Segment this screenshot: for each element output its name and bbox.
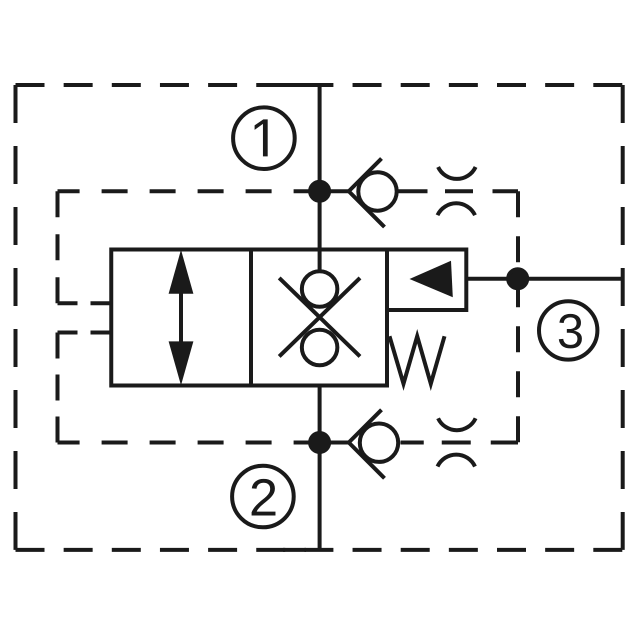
pilot actuator triangle — [410, 261, 453, 297]
junction node 1 — [310, 182, 329, 201]
spring W — [390, 336, 445, 384]
pilot stub upper solid — [94, 301, 111, 305]
junction node 3 — [508, 269, 527, 288]
left position arrowhead up — [169, 250, 194, 294]
check valve CV2 seat lines — [349, 410, 385, 478]
port 1 label — [255, 119, 268, 156]
port 2 circle — [232, 466, 294, 528]
pilot line upper elbow to valve — [58, 301, 95, 305]
left position arrowhead down — [169, 341, 194, 385]
wire node2 to check valve CV2 — [320, 441, 349, 445]
orifice O2 lower arc — [438, 455, 476, 467]
wire CV1 to orifice O1 — [399, 189, 428, 193]
outer boundary bottom edge dash patch — [283, 548, 306, 552]
wire node1 to check valve CV1 — [320, 189, 349, 193]
check valve CV2 ball — [360, 424, 398, 462]
port 2 label — [252, 479, 276, 516]
drain line vertical dashed — [516, 191, 520, 442]
pilot stub lower solid — [94, 331, 111, 335]
middle position stub into box — [318, 250, 322, 272]
port 3 label — [559, 314, 582, 348]
pilot line upper left vertical — [56, 191, 60, 303]
drain line upper horizontal dashed — [445, 189, 518, 193]
outer boundary top edge — [16, 83, 623, 87]
pilot line upper horizontal (node 1 to left) — [58, 189, 320, 193]
drain line lower horizontal dashed — [442, 441, 518, 445]
middle position ball lower — [302, 330, 338, 366]
check valve CV1 ball — [358, 172, 396, 210]
junction node 2 — [310, 433, 329, 452]
pilot line lower left vertical — [56, 333, 60, 443]
outer boundary left edge — [14, 85, 18, 550]
check valve CV1 seat lines — [349, 159, 385, 228]
wire port 3 horizontal — [466, 277, 622, 281]
outer boundary top edge dash patch — [283, 83, 306, 87]
middle position cross X — [279, 278, 360, 357]
outer boundary right edge — [621, 85, 625, 550]
orifice O1 lower arc — [438, 203, 476, 215]
pilot line lower horizontal (node 2 to left) — [58, 441, 320, 445]
pilot line lower elbow to valve — [58, 331, 95, 335]
orifice O1 upper arc — [438, 167, 476, 179]
wire port 1 vertical — [318, 85, 322, 272]
port 1 circle — [233, 107, 295, 169]
pilot actuator box — [387, 250, 466, 311]
wire CV2 to orifice O2 — [401, 441, 424, 445]
wire port 2 vertical — [318, 366, 322, 550]
left position double arrow shaft — [179, 290, 183, 345]
valve body V1 — [111, 250, 387, 386]
orifice O2 upper arc — [438, 418, 476, 430]
port 3 circle — [539, 301, 597, 359]
outer boundary bottom edge — [16, 548, 623, 552]
valve body divider — [249, 250, 253, 386]
middle position ball upper — [302, 271, 338, 307]
